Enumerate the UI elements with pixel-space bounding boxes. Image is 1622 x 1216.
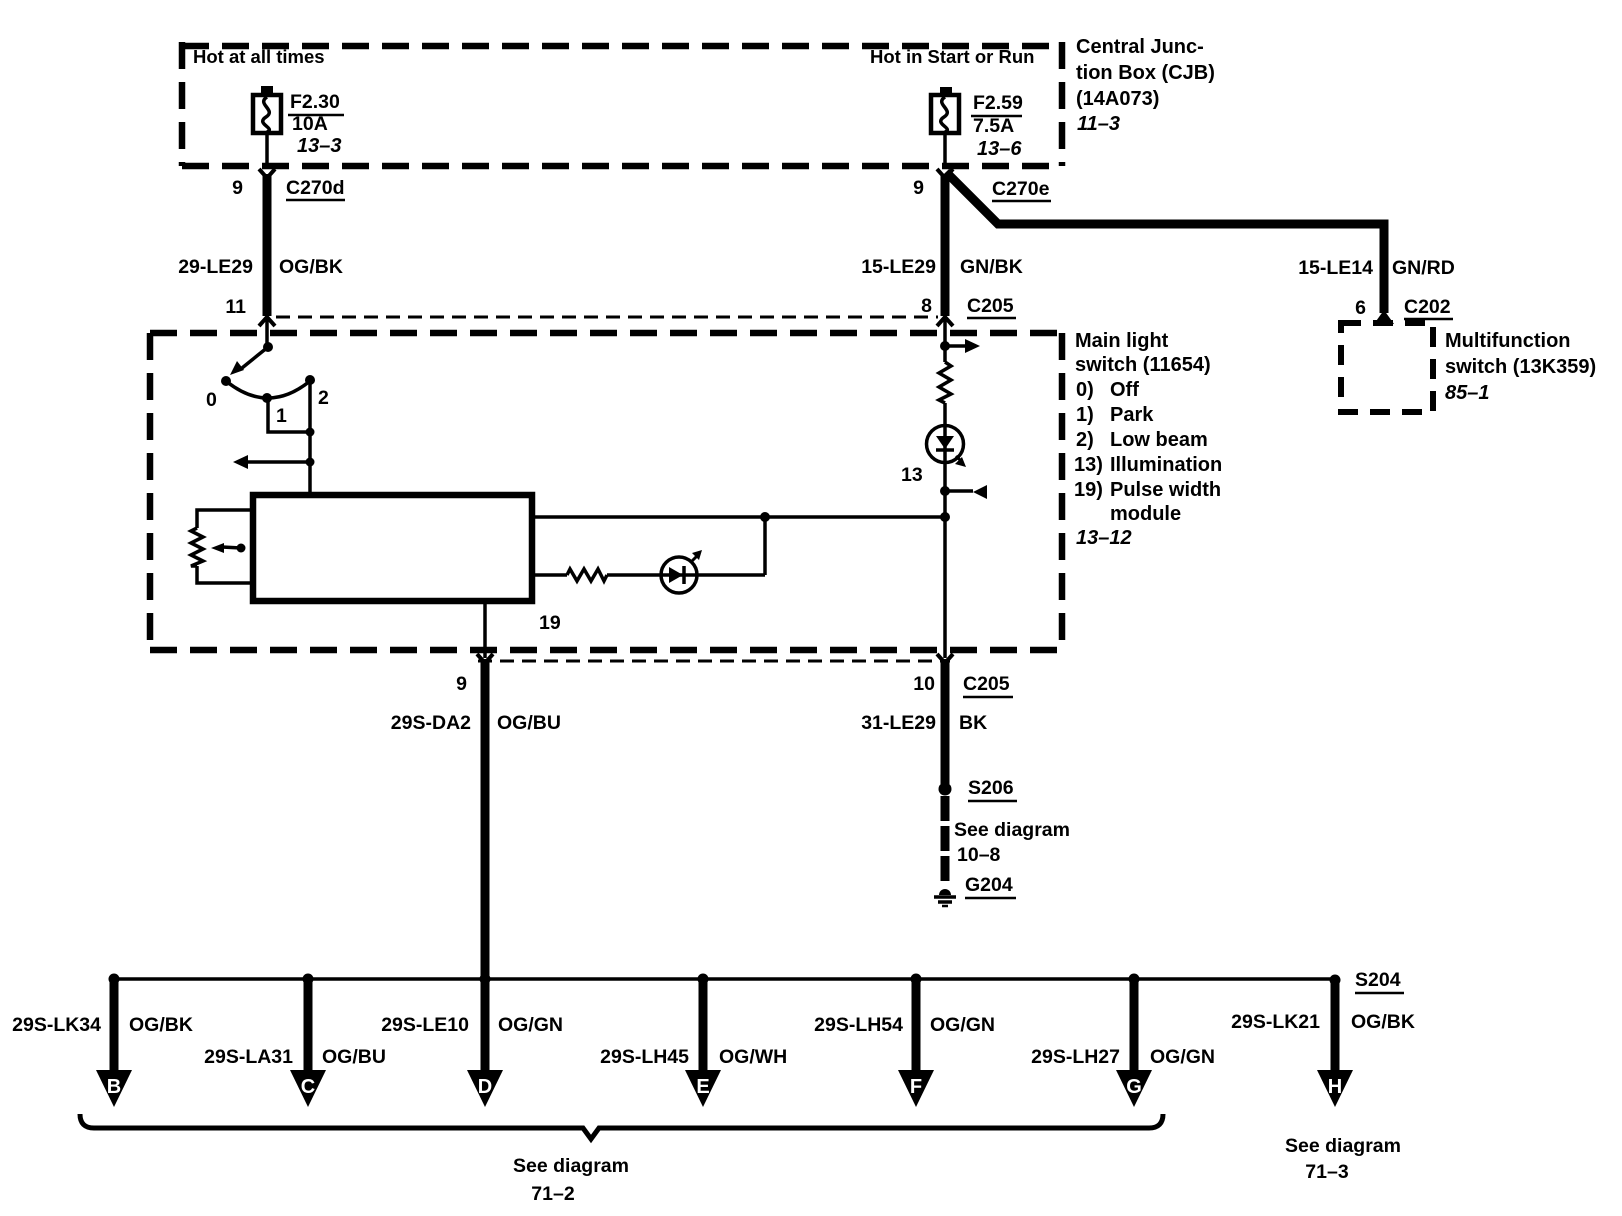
main light switch dashed outline <box>150 333 1062 650</box>
connector label C270d <box>286 177 345 200</box>
resistor (illumination feed) <box>939 362 951 403</box>
splice label S204 <box>1355 969 1404 993</box>
brace under B-G <box>80 1114 1163 1139</box>
svg-text:13): 13) <box>1074 454 1103 476</box>
svg-text:29S-LK21: 29S-LK21 <box>1231 1011 1320 1033</box>
junction with dimmer output <box>940 512 950 522</box>
svg-text:0): 0) <box>1076 379 1094 401</box>
wire node to resistor <box>943 346 947 362</box>
svg-text:10–8: 10–8 <box>957 844 1001 866</box>
svg-text:switch (11654): switch (11654) <box>1075 354 1211 376</box>
fuse F2.59 <box>931 87 959 166</box>
connector label C202 <box>1404 296 1453 319</box>
connector label C205 top <box>967 295 1016 318</box>
svg-text:See diagram: See diagram <box>954 819 1070 841</box>
position 2 contact <box>305 375 315 385</box>
CJB annotation text <box>1076 36 1215 135</box>
multifunction switch annotation <box>1445 330 1596 404</box>
svg-text:10A: 10A <box>292 113 328 135</box>
svg-text:F: F <box>910 1076 922 1098</box>
svg-text:GN/RD: GN/RD <box>1392 257 1455 279</box>
svg-text:tion Box (CJB): tion Box (CJB) <box>1076 62 1215 84</box>
svg-text:S206: S206 <box>968 777 1014 799</box>
svg-text:E: E <box>696 1076 709 1098</box>
wire from position 2 down <box>308 380 312 495</box>
svg-text:F2.59: F2.59 <box>973 92 1023 114</box>
svg-text:2: 2 <box>318 387 329 409</box>
switch arm with arrowhead to position 0 <box>230 347 268 375</box>
svg-text:15-LE29: 15-LE29 <box>861 256 936 278</box>
svg-text:G204: G204 <box>965 874 1013 896</box>
svg-text:See diagram: See diagram <box>513 1155 629 1177</box>
splice S206 <box>939 783 952 796</box>
main light switch annotation + legend <box>1074 330 1222 549</box>
svg-text:85–1: 85–1 <box>1445 382 1490 404</box>
svg-text:Main light: Main light <box>1075 330 1169 352</box>
connector arrow pin 8 <box>937 317 953 326</box>
connector arrow C202 <box>1374 310 1394 324</box>
bottom distribution bus <box>114 977 1335 981</box>
svg-text:OG/BU: OG/BU <box>322 1046 386 1068</box>
junction node on top output <box>760 512 770 522</box>
svg-text:Central Junc-: Central Junc- <box>1076 36 1204 58</box>
dashed wire to ground <box>941 796 950 882</box>
svg-text:11: 11 <box>225 296 246 318</box>
svg-text:Illumination: Illumination <box>1110 454 1222 476</box>
svg-text:OG/WH: OG/WH <box>719 1046 787 1068</box>
ground symbol <box>934 889 956 906</box>
branch C <box>290 974 326 1108</box>
wire 15-LE29 GN/BK (thick vertical) <box>941 174 950 316</box>
node with incoming arrow <box>940 486 950 496</box>
connector arrow pin 9 C270e <box>937 169 953 178</box>
module output bottom wire with resistor <box>532 517 765 581</box>
svg-text:13–6: 13–6 <box>977 138 1022 160</box>
node with left output arrow <box>306 458 315 467</box>
svg-text:9: 9 <box>456 673 467 695</box>
svg-text:Park: Park <box>1110 404 1154 426</box>
svg-text:6: 6 <box>1355 297 1366 319</box>
svg-text:OG/GN: OG/GN <box>498 1014 563 1036</box>
branch H <box>1317 975 1353 1108</box>
svg-text:See diagram: See diagram <box>1285 1135 1401 1157</box>
svg-text:B: B <box>107 1076 121 1098</box>
svg-text:OG/GN: OG/GN <box>930 1014 995 1036</box>
svg-text:H: H <box>1328 1076 1342 1098</box>
svg-text:Hot in Start or Run: Hot in Start or Run <box>870 46 1034 67</box>
illumination LED lamp <box>927 426 967 468</box>
wire 15-LE14 branch: diagonal + horizontal + vertical <box>946 172 1384 313</box>
wire 29S-DA2 OG/BU (thick vertical) <box>481 659 490 1072</box>
position 1 contact <box>262 393 272 403</box>
svg-text:31-LE29: 31-LE29 <box>861 712 936 734</box>
svg-text:10: 10 <box>913 673 935 695</box>
wire 29-LE29 OG/BK (thick vertical) <box>263 174 272 316</box>
svg-text:13–12: 13–12 <box>1076 527 1132 549</box>
svg-text:(14A073): (14A073) <box>1076 88 1159 110</box>
svg-text:13–3: 13–3 <box>297 135 342 157</box>
svg-text:11–3: 11–3 <box>1077 113 1120 135</box>
wire from module pin 19 down <box>483 601 487 658</box>
connector label C205 bottom <box>963 673 1013 697</box>
rheostat wiper arrow <box>211 543 246 553</box>
svg-text:switch (13K359): switch (13K359) <box>1445 356 1596 378</box>
connector arrow pin 9 C270d <box>259 169 275 178</box>
svg-text:13: 13 <box>901 464 923 486</box>
branch B <box>96 974 132 1108</box>
svg-text:OG/GN: OG/GN <box>1150 1046 1215 1068</box>
svg-text:29-LE29: 29-LE29 <box>178 256 253 278</box>
svg-text:S204: S204 <box>1355 969 1401 991</box>
fuse F2.30 value labels <box>288 91 344 157</box>
svg-text:G: G <box>1126 1076 1142 1098</box>
wire resistor to lamp <box>943 403 947 517</box>
position 0 contact <box>221 376 231 386</box>
svg-text:9: 9 <box>913 177 924 199</box>
svg-text:29S-LK34: 29S-LK34 <box>12 1014 101 1036</box>
rheostat network left of module <box>191 510 253 583</box>
svg-text:module: module <box>1110 503 1181 525</box>
module output top wire <box>532 515 945 519</box>
branch G <box>1116 974 1152 1108</box>
branch F <box>898 974 934 1108</box>
svg-text:1): 1) <box>1076 404 1094 426</box>
svg-text:Pulse width: Pulse width <box>1110 479 1221 501</box>
dimmer module rectangle <box>253 495 532 601</box>
svg-text:29S-DA2: 29S-DA2 <box>391 712 471 734</box>
svg-text:19: 19 <box>539 612 561 634</box>
connector arrow pin 9 bottom <box>477 654 493 663</box>
svg-text:C270e: C270e <box>992 178 1050 200</box>
svg-text:29S-LH54: 29S-LH54 <box>814 1014 903 1036</box>
wire from position 1 down and right <box>268 398 310 432</box>
svg-text:F2.30: F2.30 <box>290 91 340 113</box>
left output arrow <box>233 455 310 469</box>
connector C205 thin dashed line (bottom) <box>478 660 950 663</box>
svg-text:GN/BK: GN/BK <box>960 256 1023 278</box>
svg-text:29S-LH45: 29S-LH45 <box>600 1046 689 1068</box>
wire down to pin 10 <box>943 517 947 658</box>
svg-text:OG/BU: OG/BU <box>497 712 561 734</box>
fuse F2.30 <box>253 86 281 166</box>
ground G204 label <box>965 874 1016 898</box>
svg-text:C270d: C270d <box>286 177 345 199</box>
svg-text:1: 1 <box>276 405 287 427</box>
branch E <box>685 974 721 1108</box>
svg-text:71–3: 71–3 <box>1305 1161 1349 1183</box>
svg-text:9: 9 <box>232 177 243 199</box>
svg-text:15-LE14: 15-LE14 <box>1298 257 1373 279</box>
svg-text:Off: Off <box>1110 379 1139 401</box>
svg-text:71–2: 71–2 <box>531 1183 575 1205</box>
svg-text:OG/BK: OG/BK <box>1351 1011 1415 1033</box>
LED indicator in dimmer circuit <box>661 550 702 593</box>
switch common node <box>263 342 273 352</box>
junction node <box>306 428 315 437</box>
wire 31-LE29 BK (thick vertical) <box>941 659 950 784</box>
svg-text:D: D <box>478 1076 492 1098</box>
svg-text:C205: C205 <box>963 673 1010 695</box>
svg-text:19): 19) <box>1074 479 1103 501</box>
connector label C270e <box>992 178 1051 201</box>
svg-text:BK: BK <box>959 712 987 734</box>
fuse F2.59 value labels <box>971 92 1023 160</box>
svg-text:Low beam: Low beam <box>1110 429 1208 451</box>
branch D <box>467 974 503 1108</box>
Central Junction Box dashed outline <box>182 42 1062 166</box>
svg-text:C: C <box>301 1076 315 1098</box>
svg-text:Multifunction: Multifunction <box>1445 330 1571 352</box>
connector arrow pin 11 <box>259 317 275 326</box>
svg-text:7.5A: 7.5A <box>973 115 1014 137</box>
svg-text:C205: C205 <box>967 295 1014 317</box>
svg-text:2): 2) <box>1076 429 1094 451</box>
position arc 0-1-2 <box>226 381 310 398</box>
svg-text:OG/BK: OG/BK <box>279 256 343 278</box>
svg-text:29S-LH27: 29S-LH27 <box>1031 1046 1120 1068</box>
svg-text:OG/BK: OG/BK <box>129 1014 193 1036</box>
svg-text:Hot at all times: Hot at all times <box>193 46 325 67</box>
svg-text:0: 0 <box>206 389 217 411</box>
right branch inside switch: node with right arrow <box>940 341 950 351</box>
connector C205 thin dashed line (top) <box>276 316 938 319</box>
connector arrow pin 10 bottom <box>937 654 953 663</box>
svg-text:29S-LA31: 29S-LA31 <box>204 1046 293 1068</box>
multifunction switch dashed box <box>1341 323 1433 412</box>
svg-text:C202: C202 <box>1404 296 1451 318</box>
svg-text:8: 8 <box>921 295 932 317</box>
svg-text:29S-LE10: 29S-LE10 <box>381 1014 469 1036</box>
